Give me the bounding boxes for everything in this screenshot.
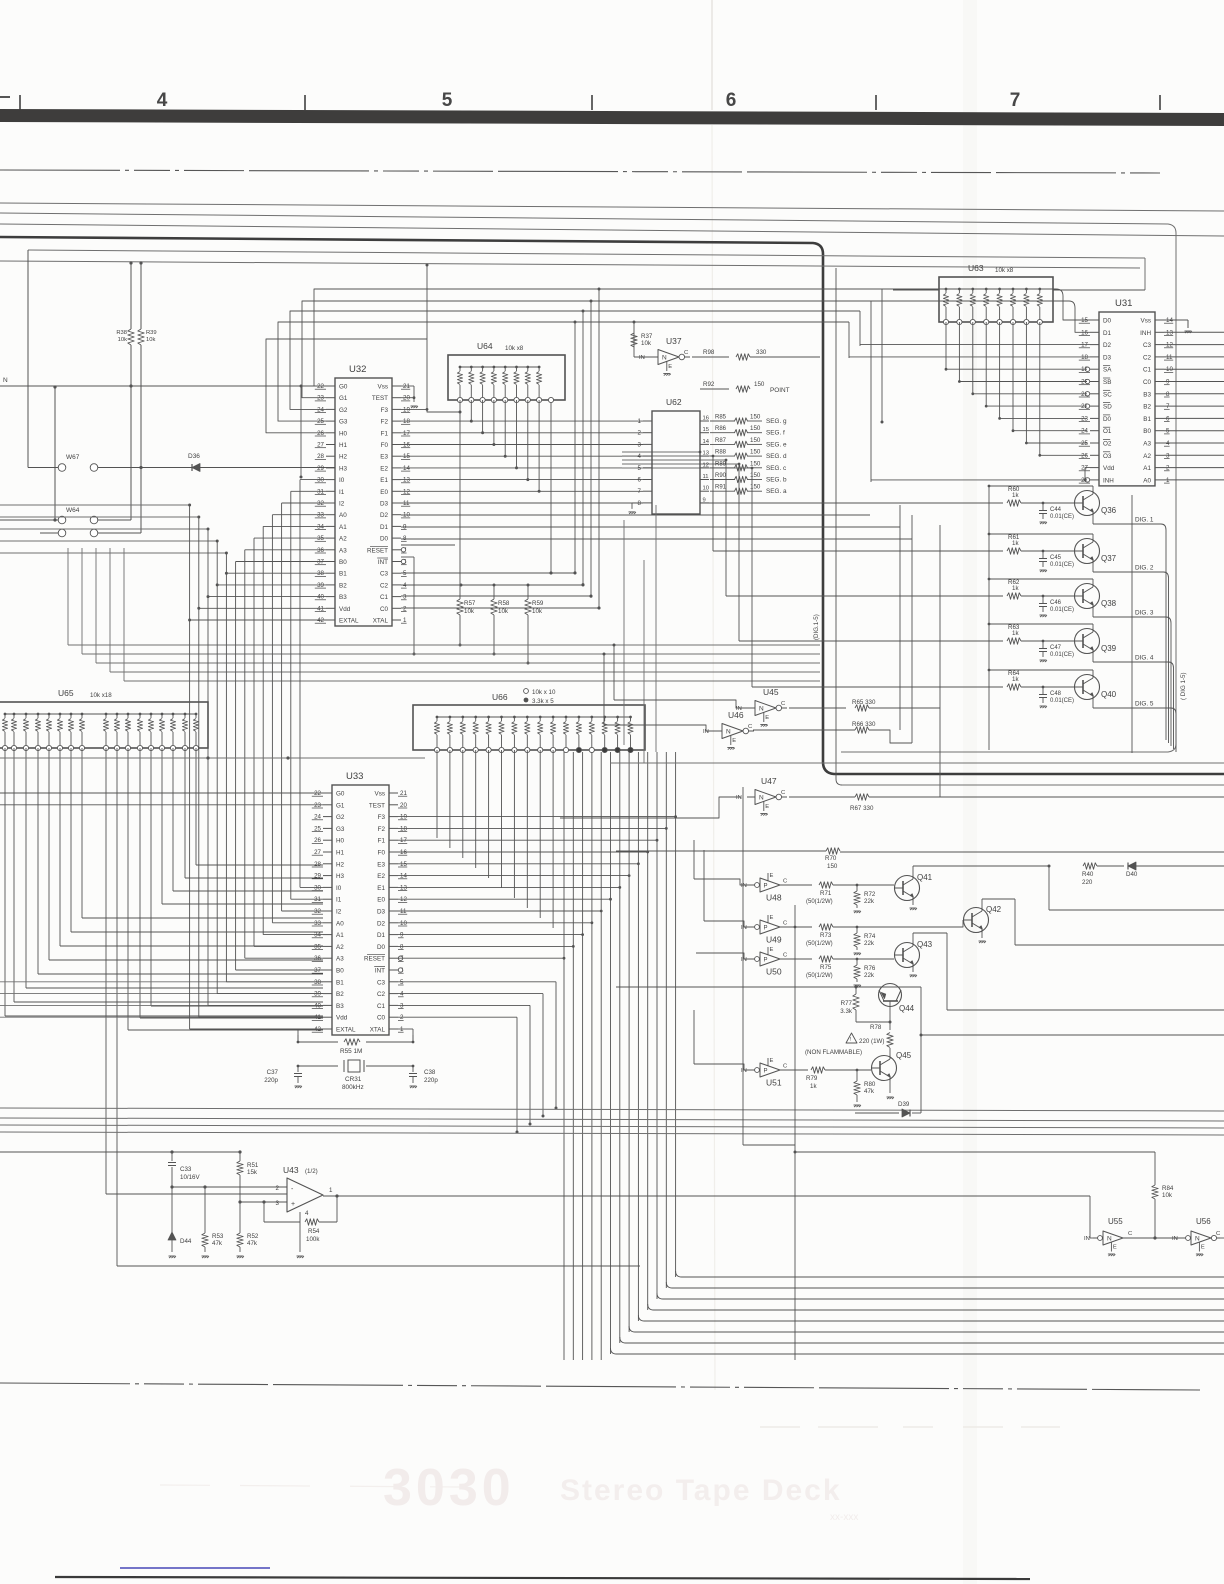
svg-text:B2: B2 [1143,404,1151,411]
svg-text:R53: R53 [212,1233,224,1240]
svg-text:N: N [759,795,764,802]
svg-text:E: E [770,947,774,953]
svg-text:R70: R70 [825,855,837,862]
svg-text:U47: U47 [761,776,777,786]
svg-text:F3: F3 [381,407,389,414]
svg-text:POINT: POINT [770,387,790,394]
svg-text:3.3k: 3.3k [840,1008,853,1015]
svg-text:10: 10 [703,486,709,492]
svg-text:Vdd: Vdd [1103,465,1115,472]
svg-text:3: 3 [638,441,642,448]
svg-text:Vss: Vss [1141,318,1152,325]
svg-text:U46: U46 [728,710,744,720]
svg-text:N: N [1195,1236,1200,1243]
svg-text:22k: 22k [864,972,875,979]
svg-text:G3: G3 [339,419,348,426]
svg-text:100k: 100k [306,1236,320,1243]
svg-text:220: 220 [1082,879,1093,886]
svg-text:N: N [759,706,764,713]
svg-text:D36: D36 [188,453,200,460]
svg-text:R86: R86 [715,426,727,432]
svg-text:I1: I1 [339,489,345,496]
svg-text:G0: G0 [339,384,348,391]
svg-text:O1: O1 [1103,428,1112,435]
svg-text:R79: R79 [806,1075,818,1082]
svg-text:G1: G1 [339,395,348,402]
svg-text:D0: D0 [1103,416,1112,423]
svg-text:C46: C46 [1050,600,1062,606]
svg-text:(1/2): (1/2) [305,1168,318,1175]
svg-text:220p: 220p [264,1077,278,1084]
svg-text:1k: 1k [1012,540,1019,547]
svg-text:E0: E0 [380,489,388,496]
svg-text:10k x18: 10k x18 [90,692,112,699]
svg-text:CR31: CR31 [345,1076,362,1083]
svg-text:C2: C2 [380,582,389,589]
svg-text:1k: 1k [1012,676,1019,683]
svg-text:A1: A1 [339,524,347,531]
svg-text:10k: 10k [464,608,475,615]
svg-text:E: E [765,715,769,721]
svg-text:1k: 1k [1012,492,1019,499]
svg-text:R67 330: R67 330 [850,805,874,812]
svg-text:IN: IN [736,795,742,801]
svg-text:R39: R39 [146,330,157,336]
svg-text:U62: U62 [666,397,682,407]
svg-text:SEG. f: SEG. f [766,430,785,437]
svg-text:C48: C48 [1050,691,1062,697]
svg-text:Q44: Q44 [899,1004,915,1013]
svg-text:TEST: TEST [372,395,388,402]
svg-text:EXTAL: EXTAL [339,618,359,625]
svg-text:I0: I0 [336,885,342,892]
svg-text:1k: 1k [1012,630,1019,637]
svg-text:E0: E0 [377,897,385,904]
svg-text:5: 5 [638,465,642,472]
svg-text:1: 1 [329,1187,333,1194]
svg-text:D3: D3 [377,909,386,916]
svg-text:SEG. g: SEG. g [766,418,787,425]
svg-text:E: E [765,804,769,810]
svg-text:0.01(CE): 0.01(CE) [1050,514,1074,520]
svg-text:(DIG.1-5): (DIG.1-5) [813,614,820,640]
svg-text:D39: D39 [898,1101,910,1108]
svg-text:R37: R37 [641,333,653,340]
svg-text:150: 150 [750,460,761,467]
svg-text:B0: B0 [339,559,347,566]
svg-text:10k: 10k [532,608,543,615]
svg-text:Vss: Vss [378,384,389,391]
svg-text:Q43: Q43 [917,940,933,949]
svg-text:R71: R71 [820,890,832,897]
svg-text:R75: R75 [820,964,832,971]
svg-text:N: N [3,377,8,384]
svg-text:U37: U37 [666,336,682,346]
svg-text:U56: U56 [1196,1217,1211,1226]
svg-text:G2: G2 [336,814,345,821]
svg-text:A1: A1 [1143,465,1151,472]
svg-text:P: P [764,884,768,890]
svg-text:13: 13 [703,451,709,457]
svg-text:RESET: RESET [367,547,388,554]
svg-text:G0: G0 [336,791,345,798]
svg-text:C0: C0 [1143,379,1152,386]
svg-text:22k: 22k [864,940,875,947]
svg-text:N: N [1107,1236,1112,1243]
svg-text:F0: F0 [378,850,386,857]
svg-text:Q42: Q42 [986,905,1002,914]
svg-text:15: 15 [703,427,709,433]
svg-text:R54: R54 [308,1228,320,1235]
svg-text:10k x 10: 10k x 10 [532,689,556,696]
svg-text:R59: R59 [532,600,544,607]
svg-text:U50: U50 [766,967,782,977]
svg-text:RESET: RESET [364,956,385,963]
svg-text:C: C [781,701,785,707]
svg-text:C1: C1 [1143,367,1152,374]
svg-text:+: + [291,1201,295,1208]
svg-text:H1: H1 [339,442,348,449]
svg-text:A2: A2 [339,536,347,543]
svg-text:4: 4 [157,90,168,111]
svg-text:INT: INT [378,559,388,566]
svg-text:150: 150 [750,425,761,432]
svg-text:E: E [770,915,774,921]
svg-text:E: E [1201,1245,1205,1251]
svg-text:11: 11 [703,474,709,480]
svg-text:C1: C1 [380,594,389,601]
svg-text:U66: U66 [492,692,508,702]
svg-text:D3: D3 [1103,354,1112,361]
svg-text:DIG. 1: DIG. 1 [1135,517,1154,524]
svg-text:DIG. 3: DIG. 3 [1135,610,1154,617]
svg-text:150: 150 [754,381,765,388]
svg-text:C47: C47 [1050,645,1062,651]
svg-text:A3: A3 [339,547,347,554]
svg-text:H1: H1 [336,850,345,857]
svg-text:A0: A0 [336,920,344,927]
svg-text:Vss: Vss [375,791,386,798]
svg-text:1k: 1k [1012,585,1019,592]
svg-text:G2: G2 [339,407,348,414]
svg-text:R55 1M: R55 1M [340,1048,362,1055]
svg-text:B0: B0 [336,968,344,975]
svg-text:150: 150 [750,414,761,421]
svg-text:H0: H0 [339,430,348,437]
svg-text:C3: C3 [377,979,386,986]
svg-text:DIG. 4: DIG. 4 [1135,655,1154,662]
svg-text:R77: R77 [841,1000,853,1007]
svg-text:IN: IN [639,355,645,361]
svg-text:P: P [764,1069,768,1075]
svg-text:C: C [1128,1231,1132,1237]
svg-text:7: 7 [638,488,642,495]
svg-text:47k: 47k [247,1240,258,1247]
svg-text:A0: A0 [339,512,347,519]
svg-text:SA: SA [1103,367,1112,374]
svg-text:E: E [668,364,672,370]
svg-text:E3: E3 [380,454,388,461]
svg-text:10k: 10k [1162,1192,1173,1199]
svg-text:U33: U33 [346,771,363,782]
svg-text:R76: R76 [864,965,876,972]
svg-text:1k: 1k [810,1083,817,1090]
svg-text:O3: O3 [1103,453,1112,460]
svg-text:C33: C33 [180,1166,192,1173]
svg-text:D0: D0 [1103,318,1112,325]
svg-text:10k: 10k [498,608,509,615]
svg-text:220p: 220p [424,1077,438,1084]
svg-text:C: C [1216,1231,1220,1237]
svg-text:F1: F1 [378,838,386,845]
svg-text:15k: 15k [247,1169,258,1176]
svg-text:C0: C0 [377,1015,386,1022]
svg-text:DIG. 5: DIG. 5 [1135,701,1154,708]
svg-text:D44: D44 [180,1238,192,1245]
svg-text:2: 2 [638,430,642,437]
svg-text:IN: IN [1172,1236,1178,1242]
svg-text:D1: D1 [380,524,389,531]
svg-text:F2: F2 [381,419,389,426]
svg-text:SEG. d: SEG. d [766,453,787,460]
svg-text:SB: SB [1103,379,1111,386]
svg-text:47k: 47k [212,1240,223,1247]
svg-text:R91: R91 [715,485,727,491]
svg-text:7: 7 [1010,90,1021,111]
svg-text:H3: H3 [336,873,345,880]
svg-text:xx-xxx: xx-xxx [830,1512,858,1523]
svg-text:A2: A2 [1143,453,1151,460]
svg-text:E1: E1 [380,477,388,484]
svg-text:C: C [781,790,785,796]
svg-text:D2: D2 [380,512,389,519]
svg-text:F0: F0 [381,442,389,449]
svg-text:C3: C3 [1143,342,1152,349]
svg-text:F3: F3 [378,814,386,821]
svg-text:4: 4 [305,1210,309,1217]
svg-text:U32: U32 [349,364,366,375]
svg-text:14: 14 [703,439,710,445]
svg-text:Q39: Q39 [1101,644,1117,653]
svg-text:(50(1/2W): (50(1/2W) [806,973,833,979]
svg-text:R78: R78 [870,1024,882,1031]
svg-text:8: 8 [638,500,642,507]
svg-text:0.01(CE): 0.01(CE) [1050,698,1074,704]
svg-text:XTAL: XTAL [370,1027,386,1034]
svg-text:I0: I0 [339,477,345,484]
svg-text:N: N [726,729,731,736]
svg-text:D0: D0 [377,944,386,951]
svg-text:E3: E3 [377,861,385,868]
svg-text:10k: 10k [146,337,155,343]
svg-text:3: 3 [276,1200,280,1207]
svg-text:B0: B0 [1143,428,1151,435]
svg-text:R84: R84 [1162,1185,1174,1192]
svg-text:R52: R52 [247,1233,259,1240]
svg-text:R74: R74 [864,933,876,940]
svg-text:R85: R85 [715,415,727,421]
svg-text:16: 16 [703,416,709,422]
svg-text:Vdd: Vdd [339,606,351,613]
svg-text:0.01(CE): 0.01(CE) [1050,562,1074,568]
svg-text:Q37: Q37 [1101,554,1117,563]
svg-text:47k: 47k [864,1088,875,1095]
svg-text:U45: U45 [763,687,779,697]
svg-text:A3: A3 [1143,441,1151,448]
svg-text:D0: D0 [380,536,389,543]
svg-text:G3: G3 [336,826,345,833]
svg-text:R58: R58 [498,600,510,607]
svg-text:E: E [1113,1245,1117,1251]
svg-text:U64: U64 [477,341,493,351]
svg-text:E: E [770,873,774,879]
svg-text:(50(1/2W): (50(1/2W) [806,941,833,947]
svg-text:F2: F2 [378,826,386,833]
svg-text:I1: I1 [336,897,342,904]
svg-text:( DIG 1-5): ( DIG 1-5) [1180,672,1187,700]
svg-text:(50(1/2W): (50(1/2W) [806,899,833,905]
svg-text:C: C [783,1064,787,1070]
svg-text:SEG. a: SEG. a [766,488,787,495]
svg-text:SD: SD [1103,404,1112,411]
svg-text:E1: E1 [377,885,385,892]
svg-text:I2: I2 [339,501,345,508]
svg-text:D2: D2 [1103,342,1112,349]
svg-text:U43: U43 [283,1165,299,1175]
svg-text:INT: INT [375,968,385,975]
svg-text:Q40: Q40 [1101,690,1117,699]
svg-text:E: E [770,1058,774,1064]
svg-text:XTAL: XTAL [373,618,389,625]
svg-text:Stereo Tape Deck: Stereo Tape Deck [560,1474,842,1507]
svg-text:C44: C44 [1050,507,1062,513]
svg-text:TEST: TEST [369,802,385,809]
svg-text:150: 150 [827,863,838,870]
svg-text:6: 6 [638,477,642,484]
svg-text:C38: C38 [424,1069,436,1076]
svg-text:INH: INH [1103,477,1114,484]
svg-text:C0: C0 [380,606,389,613]
svg-text:R72: R72 [864,891,876,898]
svg-text:B3: B3 [336,1003,344,1010]
svg-text:6: 6 [726,90,737,111]
svg-text:A1: A1 [336,932,344,939]
svg-text:(NON FLAMMABLE): (NON FLAMMABLE) [805,1049,862,1056]
svg-text:4: 4 [638,453,642,460]
svg-text:A0: A0 [1143,477,1151,484]
svg-text:C45: C45 [1050,555,1062,561]
svg-text:D3: D3 [380,501,389,508]
svg-text:3030: 3030 [383,1459,515,1517]
svg-text:H0: H0 [336,838,345,845]
svg-text:F1: F1 [381,430,389,437]
svg-text:U48: U48 [766,893,782,903]
svg-text:B2: B2 [339,582,347,589]
svg-text:C: C [783,953,787,959]
svg-text:B3: B3 [1143,391,1151,398]
svg-text:C3: C3 [380,571,389,578]
svg-text:R40: R40 [1082,871,1094,878]
svg-text:H2: H2 [339,454,348,461]
svg-text:R90: R90 [715,473,727,479]
svg-text:U49: U49 [766,935,782,945]
svg-text:C: C [783,879,787,885]
svg-text:A2: A2 [336,944,344,951]
svg-text:N: N [662,355,667,362]
svg-text:150: 150 [750,449,761,456]
svg-text:B3: B3 [339,594,347,601]
svg-text:D1: D1 [1103,330,1112,337]
svg-text:330: 330 [756,349,767,356]
svg-text:1: 1 [638,418,642,425]
svg-text:P: P [764,958,768,964]
svg-text:10k: 10k [118,337,127,343]
svg-text:C1: C1 [377,1003,386,1010]
svg-text:B2: B2 [336,991,344,998]
svg-text:O2: O2 [1103,441,1112,448]
svg-text:Q41: Q41 [917,873,933,882]
svg-text:D1: D1 [377,932,386,939]
svg-text:5: 5 [442,90,453,111]
svg-text:Vdd: Vdd [336,1015,348,1022]
svg-text:12: 12 [703,462,709,468]
svg-text:R57: R57 [464,600,476,607]
svg-text:E2: E2 [377,873,385,880]
svg-text:W64: W64 [66,507,80,514]
svg-text:U51: U51 [766,1078,782,1088]
svg-text:R89: R89 [715,461,727,467]
svg-text:R87: R87 [715,438,727,444]
svg-text:C2: C2 [377,991,386,998]
svg-text:EXTAL: EXTAL [336,1027,356,1034]
svg-text:22k: 22k [864,898,875,905]
svg-text:IN: IN [741,883,747,889]
svg-text:C: C [748,724,752,730]
svg-text:Q38: Q38 [1101,599,1117,608]
svg-text:R88: R88 [715,450,727,456]
svg-text:B1: B1 [336,979,344,986]
svg-text:W67: W67 [66,454,80,461]
svg-text:G1: G1 [336,802,345,809]
svg-text:R51: R51 [247,1162,259,1169]
svg-text:U65: U65 [58,688,74,698]
svg-text:0.01(CE): 0.01(CE) [1050,652,1074,658]
svg-text:R38: R38 [116,330,127,336]
svg-text:SEG. b: SEG. b [766,477,787,484]
svg-text:9: 9 [703,497,706,503]
svg-text:C37: C37 [267,1069,279,1076]
svg-text:U55: U55 [1108,1217,1123,1226]
svg-text:INH: INH [1140,330,1151,337]
svg-text:I2: I2 [336,909,342,916]
svg-text:2: 2 [276,1185,280,1192]
svg-text:3.3k x 5: 3.3k x 5 [532,698,554,705]
svg-text:B1: B1 [1143,416,1151,423]
svg-text:C: C [684,350,688,356]
svg-text:220 (1W): 220 (1W) [859,1038,884,1045]
svg-text:R92: R92 [703,381,715,388]
svg-text:DIG. 2: DIG. 2 [1135,565,1154,572]
svg-text:Q36: Q36 [1101,506,1117,515]
svg-text:C2: C2 [1143,354,1152,361]
svg-text:10k x8: 10k x8 [505,345,524,352]
svg-text:U63: U63 [968,263,984,273]
svg-text:E: E [732,738,736,744]
svg-text:10/16V: 10/16V [180,1174,200,1181]
svg-text:Q45: Q45 [896,1051,912,1060]
svg-text:R73: R73 [820,932,832,939]
svg-text:800kHz: 800kHz [342,1084,364,1091]
